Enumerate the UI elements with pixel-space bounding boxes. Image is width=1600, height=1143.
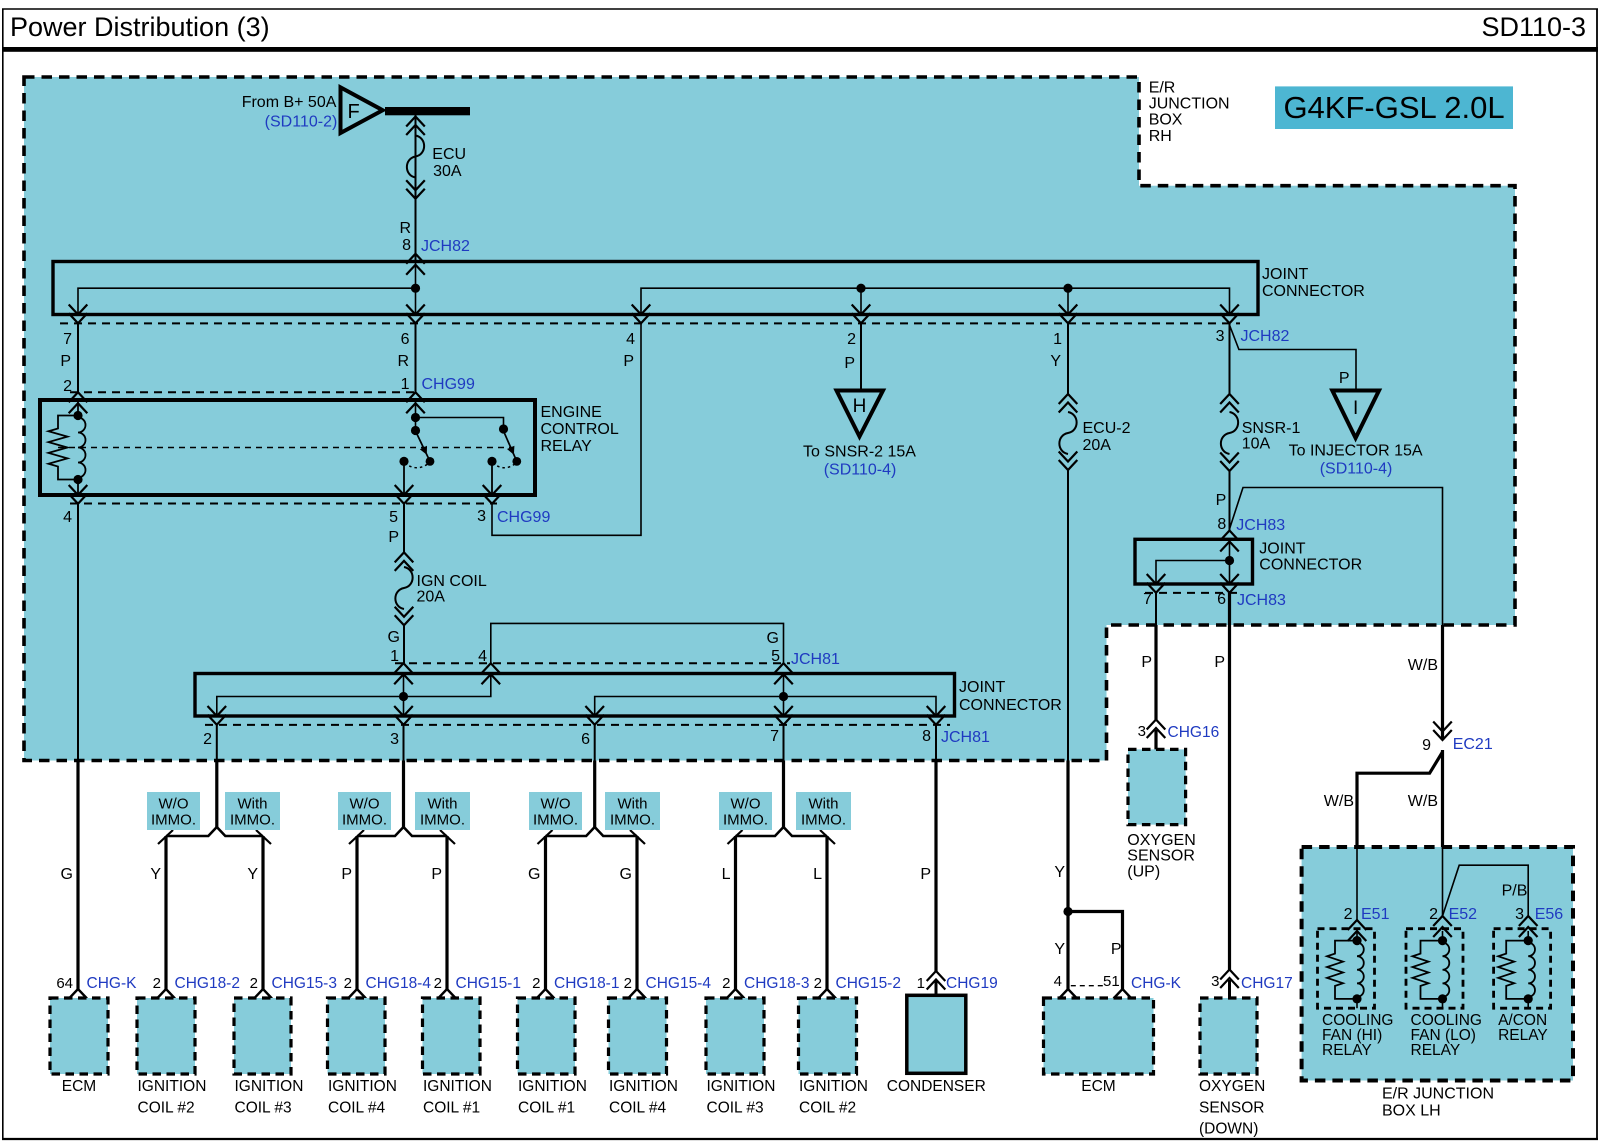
svg-text:9: 9: [1422, 737, 1431, 754]
svg-text:CHG19: CHG19: [946, 975, 998, 992]
svg-text:W/B: W/B: [1408, 793, 1438, 810]
svg-text:G: G: [528, 866, 540, 883]
svg-text:CHG-K: CHG-K: [87, 975, 138, 992]
svg-text:RELAY: RELAY: [541, 438, 593, 455]
svg-text:JCH82: JCH82: [1241, 328, 1290, 345]
svg-text:E52: E52: [1449, 906, 1478, 923]
svg-text:1: 1: [401, 376, 410, 393]
svg-text:(DOWN): (DOWN): [1199, 1121, 1258, 1138]
svg-text:E/R JUNCTION: E/R JUNCTION: [1382, 1086, 1494, 1103]
svg-text:JOINT: JOINT: [1262, 266, 1308, 283]
svg-text:CHG18-2: CHG18-2: [175, 975, 240, 992]
svg-text:IGNITION: IGNITION: [609, 1078, 678, 1095]
svg-text:64: 64: [56, 975, 73, 992]
svg-text:3: 3: [390, 731, 399, 748]
svg-text:Y: Y: [1050, 353, 1061, 370]
svg-text:To INJECTOR 15A: To INJECTOR 15A: [1289, 443, 1423, 460]
svg-text:JUNCTION: JUNCTION: [1149, 96, 1230, 113]
svg-text:2: 2: [344, 975, 352, 992]
svg-text:CONTROL: CONTROL: [541, 421, 619, 438]
svg-text:BOX LH: BOX LH: [1382, 1103, 1441, 1120]
svg-text:G: G: [620, 866, 632, 883]
svg-text:2: 2: [722, 975, 730, 992]
svg-text:RELAY: RELAY: [1322, 1042, 1372, 1059]
svg-text:4: 4: [63, 509, 72, 526]
svg-text:With: With: [618, 796, 648, 813]
svg-text:(SD110-4): (SD110-4): [1320, 461, 1393, 478]
svg-text:IMMO.: IMMO.: [723, 812, 768, 829]
svg-text:OXYGEN: OXYGEN: [1199, 1078, 1265, 1095]
svg-text:R: R: [399, 220, 411, 237]
svg-text:ECU: ECU: [432, 146, 466, 163]
svg-text:W/B: W/B: [1408, 657, 1438, 674]
svg-text:W/O: W/O: [159, 796, 189, 813]
svg-text:JCH83: JCH83: [1236, 517, 1285, 534]
svg-text:CHG99: CHG99: [497, 509, 550, 526]
svg-text:2: 2: [250, 975, 258, 992]
svg-text:P: P: [623, 353, 634, 370]
svg-text:P: P: [1216, 492, 1227, 509]
svg-text:10A: 10A: [1242, 436, 1271, 453]
svg-text:R: R: [397, 353, 409, 370]
svg-text:ECU-2: ECU-2: [1083, 420, 1131, 437]
svg-text:JCH83: JCH83: [1237, 592, 1286, 609]
svg-text:2: 2: [814, 975, 822, 992]
svg-text:3: 3: [1216, 328, 1225, 345]
svg-text:H: H: [853, 396, 867, 417]
svg-text:3: 3: [477, 508, 486, 525]
svg-text:P: P: [920, 866, 931, 883]
svg-text:IMMO.: IMMO.: [533, 812, 578, 829]
svg-text:CHG15-4: CHG15-4: [646, 975, 712, 992]
svg-text:2: 2: [1429, 906, 1438, 923]
svg-text:51: 51: [1103, 973, 1120, 990]
svg-text:SD110-3: SD110-3: [1481, 12, 1586, 42]
svg-text:G4KF-GSL 2.0L: G4KF-GSL 2.0L: [1283, 90, 1504, 125]
svg-text:P: P: [1111, 941, 1122, 958]
svg-text:30A: 30A: [433, 163, 462, 180]
svg-text:(SD110-2): (SD110-2): [265, 113, 338, 130]
svg-text:3: 3: [1515, 906, 1524, 923]
svg-text:4: 4: [1054, 973, 1062, 990]
svg-text:L: L: [813, 866, 822, 883]
svg-text:2: 2: [624, 975, 632, 992]
svg-text:RELAY: RELAY: [1411, 1042, 1461, 1059]
svg-text:JCH82: JCH82: [421, 238, 470, 255]
svg-text:8: 8: [922, 728, 931, 745]
svg-text:1: 1: [917, 975, 925, 992]
svg-text:OXYGEN: OXYGEN: [1127, 832, 1195, 849]
svg-text:COIL #1: COIL #1: [423, 1100, 480, 1117]
svg-text:CONNECTOR: CONNECTOR: [959, 697, 1062, 714]
svg-text:W/B: W/B: [1324, 793, 1354, 810]
svg-text:CONDENSER: CONDENSER: [887, 1078, 986, 1095]
svg-text:P: P: [341, 866, 352, 883]
svg-text:I: I: [1353, 398, 1358, 419]
svg-text:CHG18-1: CHG18-1: [554, 975, 619, 992]
svg-text:IGNITION: IGNITION: [799, 1078, 868, 1095]
svg-text:6: 6: [401, 331, 410, 348]
svg-text:L: L: [722, 866, 731, 883]
svg-text:20A: 20A: [417, 588, 446, 605]
svg-text:G: G: [388, 629, 400, 646]
svg-text:G: G: [767, 630, 779, 647]
svg-text:P: P: [60, 353, 71, 370]
svg-text:E56: E56: [1535, 906, 1564, 923]
svg-text:RELAY: RELAY: [1498, 1027, 1548, 1044]
svg-text:3: 3: [1138, 723, 1146, 740]
svg-text:COIL #4: COIL #4: [609, 1100, 667, 1117]
svg-text:8: 8: [1217, 516, 1226, 533]
svg-text:COIL #3: COIL #3: [235, 1100, 292, 1117]
svg-text:COIL #1: COIL #1: [518, 1100, 575, 1117]
svg-text:P: P: [431, 866, 442, 883]
svg-text:2: 2: [153, 975, 161, 992]
svg-text:With: With: [809, 796, 839, 813]
svg-text:IMMO.: IMMO.: [420, 812, 465, 829]
svg-text:20A: 20A: [1083, 437, 1112, 454]
svg-text:(SD110-4): (SD110-4): [824, 462, 897, 479]
svg-text:JCH81: JCH81: [791, 651, 840, 668]
svg-text:SNSR-1: SNSR-1: [1242, 420, 1301, 437]
svg-text:CHG18-4: CHG18-4: [366, 975, 432, 992]
svg-text:From B+ 50A: From B+ 50A: [242, 94, 337, 111]
svg-text:7: 7: [770, 728, 779, 745]
svg-text:IGNITION: IGNITION: [235, 1078, 304, 1095]
svg-text:6: 6: [581, 731, 590, 748]
svg-text:P: P: [1214, 654, 1225, 671]
svg-text:CHG15-1: CHG15-1: [456, 975, 521, 992]
svg-text:7: 7: [1143, 591, 1152, 608]
svg-text:CHG15-3: CHG15-3: [272, 975, 337, 992]
svg-text:To SNSR-2 15A: To SNSR-2 15A: [803, 444, 916, 461]
svg-text:P: P: [844, 355, 855, 372]
svg-text:IMMO.: IMMO.: [342, 812, 387, 829]
svg-text:EC21: EC21: [1453, 736, 1493, 753]
svg-text:(UP): (UP): [1127, 864, 1160, 881]
svg-text:SENSOR: SENSOR: [1127, 848, 1195, 865]
svg-text:2: 2: [532, 975, 540, 992]
svg-text:CHG99: CHG99: [422, 376, 475, 393]
svg-text:CHG18-3: CHG18-3: [744, 975, 809, 992]
svg-text:5: 5: [389, 509, 398, 526]
svg-text:W/O: W/O: [541, 796, 571, 813]
svg-text:P: P: [1141, 654, 1152, 671]
svg-text:IGNITION: IGNITION: [328, 1078, 397, 1095]
svg-text:Y: Y: [1054, 941, 1065, 958]
svg-text:Y: Y: [247, 866, 258, 883]
svg-text:ECM: ECM: [62, 1078, 96, 1095]
svg-text:2: 2: [434, 975, 442, 992]
svg-text:F: F: [348, 101, 360, 123]
svg-text:COIL #3: COIL #3: [707, 1100, 764, 1117]
svg-text:2: 2: [1344, 906, 1353, 923]
svg-text:CHG17: CHG17: [1241, 975, 1293, 992]
svg-text:P/B: P/B: [1502, 883, 1528, 900]
svg-text:IGNITION: IGNITION: [423, 1078, 492, 1095]
svg-text:JOINT: JOINT: [959, 679, 1005, 696]
svg-text:With: With: [238, 796, 268, 813]
svg-text:W/O: W/O: [350, 796, 380, 813]
svg-text:E51: E51: [1361, 906, 1390, 923]
svg-text:CHG16: CHG16: [1168, 724, 1220, 741]
svg-text:CONNECTOR: CONNECTOR: [1262, 283, 1365, 300]
svg-text:1: 1: [1053, 331, 1062, 348]
svg-text:IMMO.: IMMO.: [610, 812, 655, 829]
svg-text:4: 4: [626, 331, 635, 348]
svg-text:IGNITION: IGNITION: [707, 1078, 776, 1095]
svg-text:8: 8: [402, 237, 411, 254]
svg-text:IMMO.: IMMO.: [801, 812, 846, 829]
svg-text:Power Distribution (3): Power Distribution (3): [10, 12, 270, 42]
svg-text:IGNITION: IGNITION: [518, 1078, 587, 1095]
svg-text:ECM: ECM: [1081, 1078, 1115, 1095]
svg-text:6: 6: [1217, 591, 1226, 608]
svg-text:Y: Y: [150, 866, 161, 883]
svg-text:CHG-K: CHG-K: [1131, 975, 1182, 992]
svg-text:2: 2: [847, 331, 856, 348]
svg-text:2: 2: [203, 731, 212, 748]
svg-text:BOX: BOX: [1149, 112, 1183, 129]
svg-text:P: P: [1339, 370, 1350, 387]
svg-text:COIL #2: COIL #2: [138, 1100, 195, 1117]
svg-text:JCH81: JCH81: [941, 729, 990, 746]
svg-text:CHG15-2: CHG15-2: [836, 975, 901, 992]
svg-text:IMMO.: IMMO.: [151, 812, 196, 829]
svg-text:3: 3: [1211, 973, 1219, 990]
svg-text:IMMO.: IMMO.: [230, 812, 275, 829]
svg-text:SENSOR: SENSOR: [1199, 1100, 1264, 1117]
svg-text:ENGINE: ENGINE: [541, 404, 602, 421]
svg-text:CONNECTOR: CONNECTOR: [1259, 557, 1362, 574]
svg-text:G: G: [61, 866, 73, 883]
svg-text:JOINT: JOINT: [1259, 541, 1305, 558]
svg-text:IGNITION: IGNITION: [138, 1078, 207, 1095]
svg-text:COIL #4: COIL #4: [328, 1100, 386, 1117]
svg-text:W/O: W/O: [731, 796, 761, 813]
svg-text:COIL #2: COIL #2: [799, 1100, 856, 1117]
svg-text:E/R: E/R: [1149, 79, 1176, 96]
svg-text:With: With: [428, 796, 458, 813]
svg-text:P: P: [388, 529, 399, 546]
svg-text:RH: RH: [1149, 128, 1172, 145]
svg-text:Y: Y: [1054, 864, 1065, 881]
svg-text:7: 7: [63, 331, 72, 348]
